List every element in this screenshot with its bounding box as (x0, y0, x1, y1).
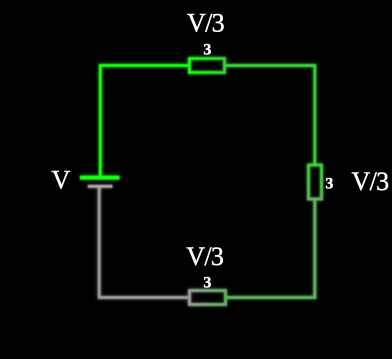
resistor R3 (bottom, 3 ohm) (190, 291, 226, 305)
wire node V: battery positive up then right to R1 (100, 66, 189, 176)
svg-text:3: 3 (203, 41, 211, 58)
svg-text:3: 3 (325, 175, 333, 192)
battery V1 positive plate (long, green) (80, 176, 120, 180)
svg-text:V/3: V/3 (352, 167, 389, 196)
resistor R1 (top, 3 ohm) (190, 59, 225, 73)
wire node 2V/3: R1 right lead to top-right corner, down to R2 (226, 66, 315, 165)
svg-text:V/3: V/3 (187, 9, 224, 38)
svg-text:V: V (52, 166, 71, 195)
wire node V/3: R2 bottom down to corner, left to R3 (227, 200, 315, 298)
battery V1 negative plate (short, gray) (88, 185, 113, 188)
svg-text:V/3: V/3 (186, 242, 223, 271)
resistor R2 (right, 3 ohm) (309, 165, 322, 199)
svg-text:3: 3 (203, 274, 211, 291)
wire node 0V: R3 left lead to corner, up to battery negative (99, 187, 189, 298)
glow halo underlayer for all conductors (80, 59, 322, 305)
